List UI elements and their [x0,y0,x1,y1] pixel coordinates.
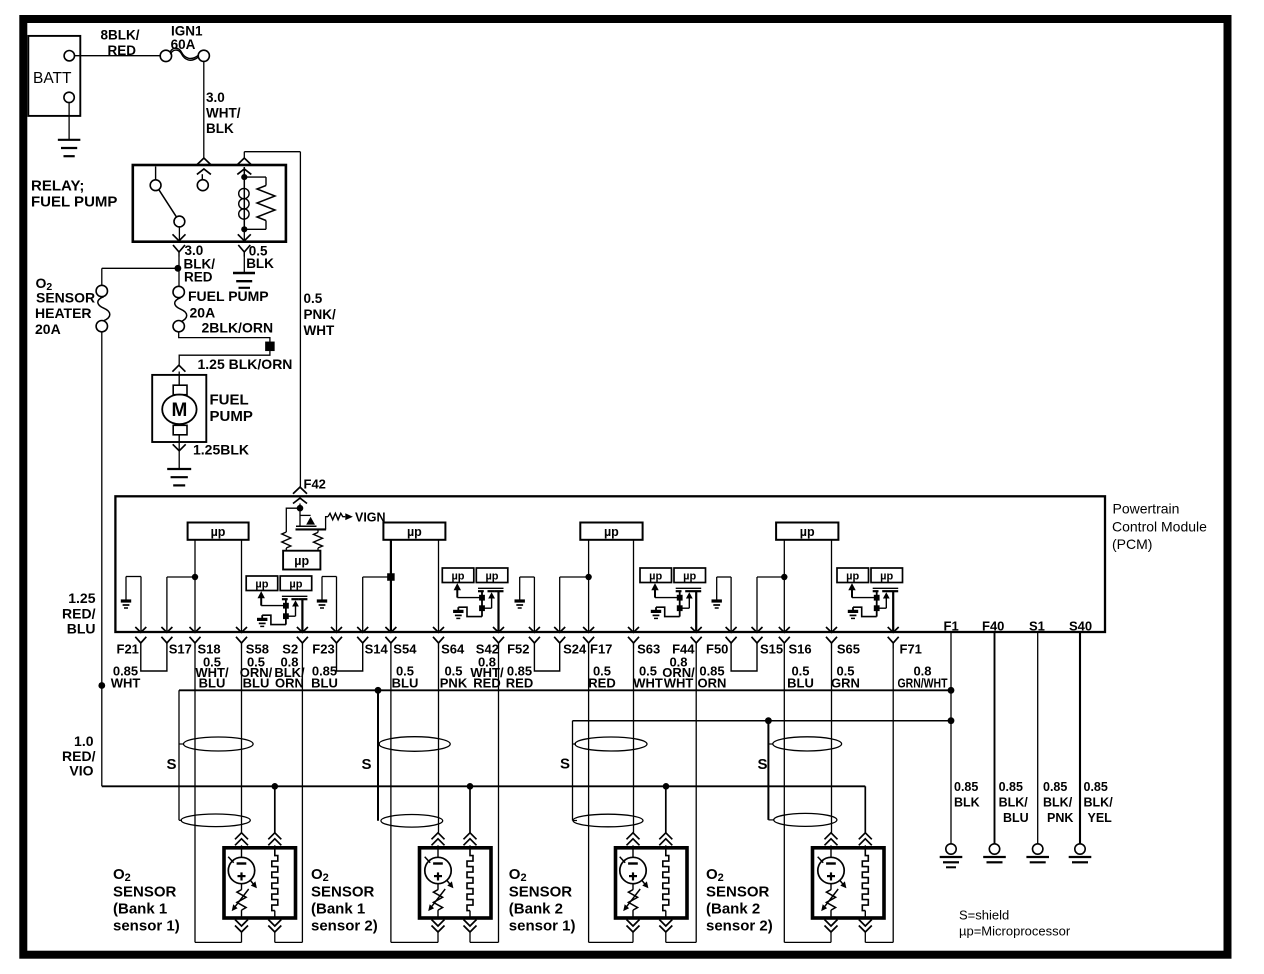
shield ellipse lower sensor 2 [381,815,443,828]
svg-text:1.25BLK: 1.25BLK [193,442,249,458]
pin S24 [554,627,565,632]
wire uP2 to S54 with junction [390,540,392,632]
microprocessor box 3 [580,523,642,540]
pin S64 [433,627,444,632]
pin F50 [726,627,737,632]
svg-text:VIO: VIO [69,763,93,779]
svg-text:0.85: 0.85 [1043,780,1067,794]
svg-text:SENSOR: SENSOR [311,884,375,901]
svg-text:S=shield: S=shield [959,908,1009,923]
pin F44 [691,627,702,632]
svg-text:F23: F23 [312,642,334,657]
svg-text:µp: µp [683,571,696,583]
relay coil resistor [244,176,266,178]
svg-text:RED/: RED/ [62,606,96,622]
O2 sensor (Bank 1 sensor 1) [224,848,296,918]
svg-text:µp: µp [211,525,226,539]
svg-text:S63: S63 [637,642,660,657]
wire to pin F52 [533,577,535,632]
pin S16 [779,627,790,632]
transistor driver for F44 [640,568,672,583]
svg-text:BLK: BLK [206,121,234,136]
svg-text:0.85: 0.85 [1084,780,1108,794]
heater supply drop sensor 3 [663,783,670,790]
svg-text:µp: µp [649,571,662,583]
fuel pump motor [152,375,206,442]
heater supply drop sensor 1 [272,783,279,790]
relay switch contact (common) [155,167,157,181]
wire S18 to sensor 1 low side [194,649,196,943]
wire junction to S14 [363,576,391,578]
svg-text:µp: µp [880,571,893,583]
svg-text:BLK: BLK [246,256,274,271]
pin S58 [236,627,247,632]
ground for F23 inside PCM [322,576,337,578]
svg-text:sensor 1): sensor 1) [509,918,576,935]
svg-text:0.85: 0.85 [954,780,978,794]
wire S2 to sensor 1 heater low [301,649,303,943]
O2 sensor (Bank 2 sensor 1) [616,848,688,918]
microprocessor box under F42 [283,551,320,570]
shield ellipse lower sensor 1 [181,814,250,827]
svg-text:BLK/: BLK/ [999,796,1029,810]
chassis ground S40 [1075,844,1085,854]
svg-text:PNK: PNK [440,676,468,691]
wire BATT to fuse IGN1 [75,55,161,57]
shield drop sensor 4 [765,717,772,724]
pin S42 [493,627,504,632]
svg-text:sensor 1): sensor 1) [113,918,180,935]
shield ellipse lower sensor 3 [573,814,643,827]
svg-text:S: S [362,756,372,773]
pin S54 [385,627,396,632]
relay output arrow (coil) [243,229,245,240]
shield ellipse upper sensor 4 [773,737,842,751]
shield ellipse upper sensor 1 [184,737,254,751]
sensing cell (bank 2 sensor 1) [632,848,634,858]
svg-text:WHT: WHT [664,676,694,691]
wire S64 to sensor 2 cell [438,649,440,833]
battery BATT [28,36,80,116]
svg-text:FUEL: FUEL [210,392,249,409]
fuse FUEL PUMP 20A [173,286,184,297]
O2 sensor (Bank 2 sensor 2) [813,848,885,918]
pin F17 [583,627,594,632]
arrow to VIGN [345,513,353,520]
ground for F50 inside PCM [717,576,731,578]
wire fuse to fuel pump with square junction [179,332,270,365]
svg-text:BLU: BLU [787,676,814,691]
svg-text:YEL: YEL [1088,811,1113,825]
svg-text:BLU: BLU [311,676,338,691]
wire S63 to sensor 3 cell [633,649,635,833]
wire uP2 to S64 [438,540,440,632]
arrows out of sensor (bank 1 sensor 1) [235,926,248,933]
svg-text:RED: RED [184,269,213,284]
svg-text:FUEL PUMP: FUEL PUMP [31,194,117,211]
svg-text:(Bank 1: (Bank 1 [311,901,365,918]
pin F52 [529,627,540,632]
wire uP3 to F17 with junction [588,540,590,632]
svg-text:µp: µp [255,579,268,591]
wire S54 to sensor 2 low side [390,649,392,943]
svg-text:BLK/: BLK/ [1043,796,1073,810]
wire to pin F50 [730,577,732,632]
svg-text:µp: µp [485,571,498,583]
svg-text:S: S [560,756,570,773]
svg-text:(Bank 1: (Bank 1 [113,901,167,918]
junction dot on left riser [98,682,105,689]
pin S15 [752,627,763,632]
shield drop sensor 3 [572,721,574,821]
svg-text:PNK/: PNK/ [304,307,337,322]
svg-text:µp: µp [604,525,619,539]
svg-text:1.0: 1.0 [74,733,94,749]
svg-text:(Bank 2: (Bank 2 [509,901,563,918]
chassis ground F40 [989,844,999,854]
ground below fuel pump [167,468,191,470]
wire S58 to sensor 1 cell [241,649,243,833]
svg-text:S24: S24 [563,642,587,657]
svg-text:SENSOR: SENSOR [113,884,177,901]
svg-text:BATT: BATT [33,70,72,87]
svg-text:GRN/WHT: GRN/WHT [898,676,948,691]
sensing cell (bank 1 sensor 2) [437,848,439,858]
chassis ground S1 [1033,844,1043,854]
svg-text:S65: S65 [837,642,860,657]
svg-text:F52: F52 [507,642,529,657]
pin S18 [190,627,201,632]
pin F23 [331,627,342,632]
svg-text:PNK: PNK [1047,811,1073,825]
svg-text:BLU: BLU [392,676,419,691]
wire uP4 to S65 [831,540,833,632]
resistor to VIGN [326,517,328,530]
svg-text:RED: RED [473,676,500,691]
wire 3.0 WHT/BLK fuse to relay [203,61,205,158]
resistor to microprocessor (left) [286,508,300,532]
svg-text:F42: F42 [304,477,326,492]
svg-text:sensor 2): sensor 2) [311,918,378,935]
wire uP4 to S16 with junction [783,540,785,632]
microprocessor box 4 [776,523,838,540]
shield ellipse upper sensor 2 [379,737,450,752]
sensing cell (bank 1 sensor 1) [241,848,243,858]
relay switch contact (output) [174,216,185,227]
svg-text:ORN: ORN [698,676,727,691]
microprocessor box 1 [188,523,249,540]
wire F44 to sensor 3 heater low [695,649,697,943]
svg-text:S54: S54 [393,642,417,657]
svg-text:SENSOR: SENSOR [36,290,95,306]
svg-text:µp=Microprocessor: µp=Microprocessor [959,924,1071,939]
svg-text:BLU: BLU [67,621,96,637]
wire F71 to sensor 4 heater low [892,649,894,943]
svg-text:20A: 20A [190,305,216,321]
shield ellipse upper sensor 3 [575,737,647,751]
svg-text:S40: S40 [1069,619,1092,634]
wire driver to pin F44 [695,591,697,632]
Powertrain Control Module (PCM) box [115,496,1105,632]
arrows into sensor (bank 2 sensor 1) [627,833,640,840]
svg-text:3.0: 3.0 [206,90,225,105]
relay output arrow (switch) [178,226,180,240]
svg-text:WHT: WHT [111,676,141,691]
arrows into sensor (bank 2 sensor 2) [825,833,838,840]
svg-text:µp: µp [451,571,464,583]
relay input arrow (switch common) [197,158,211,165]
svg-text:sensor 2): sensor 2) [706,918,773,935]
wire 1.0 RED/VIO heater bus [102,785,866,787]
svg-text:S15: S15 [760,642,783,657]
svg-text:BLK: BLK [954,796,980,810]
svg-text:F1: F1 [944,619,959,634]
relay switch blade [159,189,177,217]
shield bus wire upper [179,689,951,691]
heater supply drop sensor 4 [864,786,866,833]
pin S2 [297,627,308,632]
svg-text:µp: µp [289,579,302,591]
svg-text:S1: S1 [1029,619,1045,634]
wire to pin F23 [336,577,338,633]
svg-text:SENSOR: SENSOR [509,884,573,901]
svg-text:F21: F21 [117,642,139,657]
pin F21 [135,627,146,632]
svg-text:ORN: ORN [275,676,304,691]
svg-text:RELAY;: RELAY; [31,178,84,195]
wire 3.0 BLK/RED with junction [178,257,180,287]
fuel pump output arrow [178,442,180,468]
wire driver to pin S42 [497,591,499,632]
svg-text:PUMP: PUMP [210,408,253,425]
wire relay coil to 0.5 PNK/WHT riser [243,152,245,159]
shield bus wire lower [573,720,952,722]
svg-text:F50: F50 [706,642,728,657]
wire S65 to sensor 4 cell [831,649,833,833]
heater element (bank 2 sensor 1) [663,848,669,911]
svg-text:WHT: WHT [633,676,663,691]
svg-text:M: M [171,400,187,421]
wire driver to pin F71 [892,591,894,632]
transistor at F42 (VIGN switch) [299,508,301,526]
fuse IGN1 60A [160,50,171,61]
wire uP3 to S63 [633,540,635,632]
svg-text:BLK/: BLK/ [1084,796,1114,810]
microprocessor box 2 [383,523,445,540]
svg-text:S64: S64 [441,642,465,657]
pin S17 [161,627,172,632]
svg-text:20A: 20A [35,321,61,337]
transistor driver for S2 [246,576,278,591]
svg-text:F71: F71 [900,642,922,657]
svg-text:GRN: GRN [831,676,860,691]
svg-text:2BLK/ORN: 2BLK/ORN [202,320,274,336]
svg-text:S16: S16 [789,642,812,657]
arrows into sensor (bank 1 sensor 1) [235,833,248,840]
svg-text:RED: RED [506,676,533,691]
relay switch terminal circle [201,174,203,179]
svg-text:FUEL PUMP: FUEL PUMP [188,288,269,304]
wire 0.5 PNK/WHT riser down to F42 [299,152,301,488]
wire S42 to sensor 2 heater low [498,649,500,943]
svg-text:1.25 BLK/ORN: 1.25 BLK/ORN [198,356,293,372]
wire bracket F50-S15 [731,649,757,672]
wire driver to pin S2 [301,599,303,632]
O2 sensor (Bank 1 sensor 2) [420,848,492,918]
node F42 junction [299,504,301,509]
wire to pin F21 [140,577,142,633]
svg-text:BLU: BLU [1003,811,1029,825]
wire junction to S15 [757,576,784,578]
relay coil [243,167,245,229]
pin S63 [628,627,639,632]
svg-text:S: S [758,756,768,773]
heater element (bank 2 sensor 2) [862,848,868,911]
sensing cell (bank 2 sensor 2) [830,848,832,858]
pin S14 [357,627,368,632]
shield drop sensor 1 [178,690,180,820]
heater supply drop sensor 2 [467,783,474,790]
wire 1.25 RED/BLU left riser [101,332,103,786]
svg-text:WHT/: WHT/ [206,106,241,121]
wire junction to S17 [167,576,195,578]
ground for F21 inside PCM [126,576,141,578]
arrows into sensor (bank 1 sensor 2) [432,833,445,840]
relay input arrow (coil) [237,158,251,165]
arrows out of sensor (bank 1 sensor 2) [432,926,445,933]
heater element (bank 1 sensor 2) [467,848,473,911]
svg-text:HEATER: HEATER [35,305,92,321]
svg-text:BLU: BLU [243,676,270,691]
wire uP1 to S58 [241,540,243,632]
svg-text:BLU: BLU [199,676,226,691]
svg-text:0.5: 0.5 [304,291,323,306]
ground below relay coil [243,252,245,272]
svg-text:µp: µp [800,525,815,539]
wire uP1 to S18 with junction [194,540,196,632]
wire bracket F23-S14 [337,649,363,672]
arrows out of sensor (bank 2 sensor 2) [825,926,838,933]
wire bracket F52-S24 [534,649,559,672]
svg-text:(PCM): (PCM) [1112,536,1152,552]
svg-text:SENSOR: SENSOR [706,884,770,901]
svg-text:(Bank 2: (Bank 2 [706,901,760,918]
transistor driver for S42 [442,568,474,583]
svg-text:1.25: 1.25 [68,590,95,606]
node shield bus junctions at F1 [948,687,955,694]
heater element (bank 1 sensor 1) [272,848,278,911]
svg-text:S: S [167,756,177,773]
wire S16 to sensor 4 low side [783,649,785,943]
svg-text:Control Module: Control Module [1112,518,1207,534]
shield drop sensor 2 [375,687,382,694]
svg-text:µp: µp [407,525,422,539]
svg-text:S17: S17 [169,642,192,657]
svg-text:µp: µp [846,571,859,583]
pin F71 [888,627,899,632]
svg-text:F17: F17 [590,642,612,657]
shield ellipse lower sensor 4 [774,813,837,826]
svg-text:Powertrain: Powertrain [1113,501,1180,517]
svg-text:µp: µp [294,554,309,568]
svg-text:RED: RED [588,676,615,691]
svg-text:0.85: 0.85 [999,780,1023,794]
chassis ground F1 [946,844,956,854]
wire F17 to sensor 3 low side [588,649,590,943]
resistor to microprocessor (right) [317,529,319,532]
svg-text:VIGN: VIGN [355,511,386,525]
relay box RELAY; FUEL PUMP [133,165,286,242]
wire junction to S24 [560,576,589,578]
svg-text:60A: 60A [171,37,196,52]
wire bracket F21-S17 [141,649,167,672]
pin S65 [826,627,837,632]
svg-text:F40: F40 [982,619,1004,634]
svg-text:8BLK/: 8BLK/ [101,28,140,43]
pin F42 entry arrow [293,487,307,494]
fuel pump input arrow [172,365,185,372]
svg-text:S14: S14 [365,642,389,657]
ground below BATT [68,103,70,140]
svg-text:RED: RED [108,43,137,58]
fuse O2 SENSOR HEATER 20A [96,285,107,296]
ground for F52 inside PCM [520,576,535,578]
arrows out of sensor (bank 2 sensor 1) [627,926,640,933]
svg-text:WHT: WHT [304,323,335,338]
transistor driver for F71 [837,568,869,583]
